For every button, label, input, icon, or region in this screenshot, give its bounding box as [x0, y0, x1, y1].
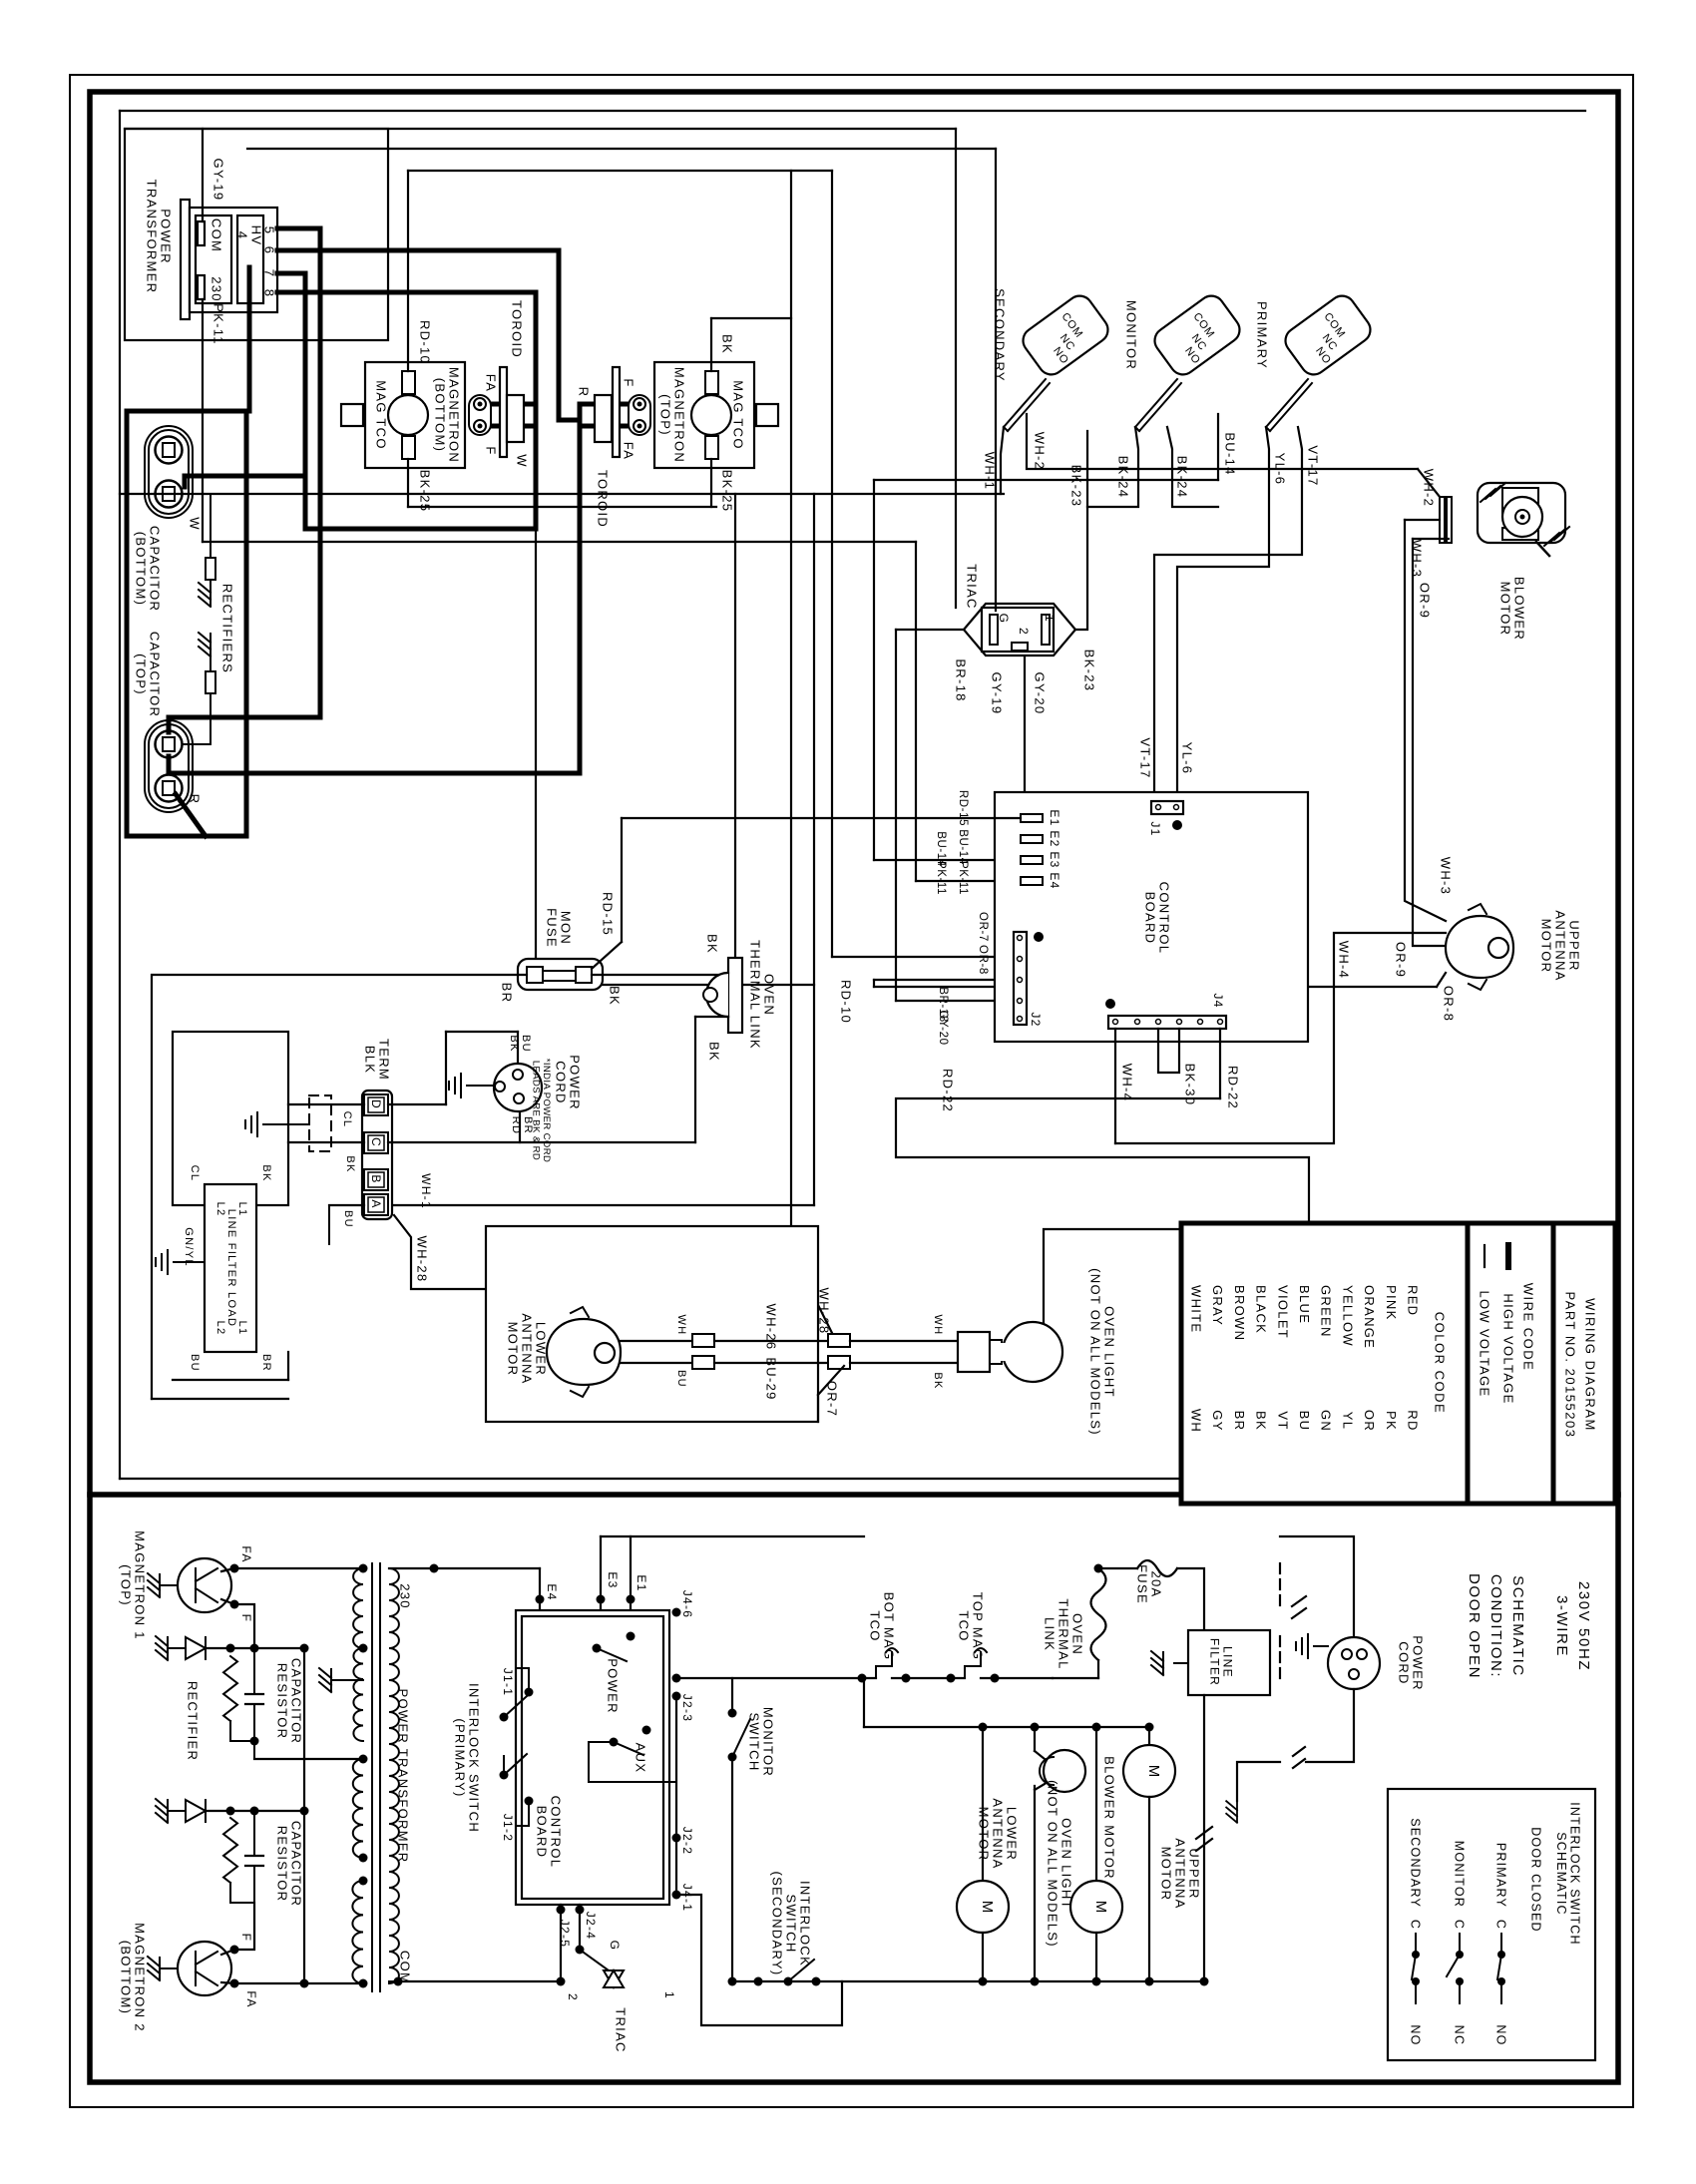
svg-text:LEADS ARE BK & RD: LEADS ARE BK & RD: [530, 1061, 541, 1160]
svg-text:(PRIMARY): (PRIMARY): [452, 1718, 467, 1797]
svg-text:M: M: [1092, 1901, 1109, 1914]
svg-text:PK-11: PK-11: [935, 861, 947, 895]
svg-text:C: C: [1453, 1920, 1467, 1930]
svg-text:DOOR OPEN: DOOR OPEN: [1466, 1573, 1483, 1679]
svg-text:RESISTOR: RESISTOR: [274, 1826, 289, 1903]
svg-text:YL-6: YL-6: [1179, 742, 1194, 775]
svg-text:E3: E3: [606, 1571, 620, 1588]
svg-text:A: A: [369, 1199, 383, 1208]
svg-text:RD-15: RD-15: [600, 892, 615, 936]
svg-text:PK-11: PK-11: [211, 303, 225, 345]
svg-text:B: B: [369, 1174, 383, 1183]
svg-text:TOP MAG: TOP MAG: [970, 1592, 985, 1661]
svg-text:BLK: BLK: [362, 1046, 377, 1074]
svg-text:FA: FA: [621, 442, 636, 461]
svg-text:PART NO. 20155203: PART NO. 20155203: [1562, 1292, 1577, 1439]
svg-text:FUSE: FUSE: [1134, 1564, 1149, 1604]
svg-text:WH-28: WH-28: [414, 1236, 429, 1283]
svg-text:CAPACITOR: CAPACITOR: [288, 1658, 303, 1744]
svg-text:SECONDARY: SECONDARY: [992, 288, 1007, 382]
svg-text:OVEN LIGHT: OVEN LIGHT: [1101, 1306, 1116, 1398]
svg-text:MAGNETRON 1: MAGNETRON 1: [132, 1530, 147, 1640]
svg-text:OR-9: OR-9: [1393, 942, 1408, 978]
svg-text:LOW VOLTAGE: LOW VOLTAGE: [1477, 1290, 1491, 1397]
svg-text:W: W: [187, 517, 202, 531]
svg-text:BU: BU: [342, 1210, 354, 1228]
svg-text:MONITOR: MONITOR: [760, 1707, 775, 1777]
svg-text:WH-4: WH-4: [1336, 941, 1351, 979]
svg-text:CORD: CORD: [553, 1061, 568, 1103]
svg-text:E1: E1: [635, 1574, 648, 1591]
svg-text:OVEN: OVEN: [1069, 1613, 1084, 1655]
svg-text:MON: MON: [558, 911, 573, 945]
svg-text:D: D: [369, 1099, 383, 1109]
svg-text:UPPER: UPPER: [1186, 1848, 1201, 1899]
svg-text:WH-3: WH-3: [1438, 857, 1453, 895]
svg-text:POWER: POWER: [567, 1055, 582, 1110]
svg-text:(TOP): (TOP): [118, 1564, 133, 1606]
svg-text:E1: E1: [1048, 809, 1061, 826]
svg-text:POWER: POWER: [158, 209, 173, 264]
svg-text:BU-14: BU-14: [1222, 432, 1237, 475]
svg-text:INTERLOCK: INTERLOCK: [797, 1881, 812, 1966]
svg-text:YELLOW: YELLOW: [1340, 1285, 1355, 1347]
svg-text:J1-2: J1-2: [501, 1814, 515, 1843]
svg-text:WH-26: WH-26: [763, 1304, 778, 1351]
svg-text:RD-10: RD-10: [838, 980, 853, 1024]
svg-text:BLOWER MOTOR: BLOWER MOTOR: [1101, 1756, 1116, 1880]
svg-text:TRANSFORMER: TRANSFORMER: [144, 180, 159, 294]
svg-text:CONDITION:: CONDITION:: [1487, 1574, 1504, 1678]
svg-text:J2-4: J2-4: [584, 1912, 598, 1941]
svg-text:J2-3: J2-3: [680, 1694, 694, 1723]
svg-text:BK-23: BK-23: [1081, 650, 1096, 692]
svg-text:PRIMARY: PRIMARY: [1494, 1843, 1508, 1908]
svg-text:UPPER: UPPER: [1566, 920, 1581, 971]
svg-text:(TOP): (TOP): [133, 654, 148, 695]
svg-text:4: 4: [234, 231, 249, 240]
svg-text:HIGH VOLTAGE: HIGH VOLTAGE: [1500, 1293, 1515, 1404]
svg-text:BOARD: BOARD: [1142, 892, 1157, 945]
svg-text:L2: L2: [214, 1321, 226, 1336]
svg-text:LINK: LINK: [1042, 1617, 1057, 1651]
svg-text:(TOP): (TOP): [657, 394, 672, 436]
svg-text:6: 6: [261, 246, 276, 255]
svg-text:(SECONDARY): (SECONDARY): [769, 1871, 784, 1975]
svg-text:OR-7: OR-7: [824, 1381, 839, 1417]
svg-text:DOOR CLOSED: DOOR CLOSED: [1529, 1827, 1543, 1933]
svg-text:ANTENNA: ANTENNA: [990, 1798, 1005, 1869]
svg-text:CAPACITOR: CAPACITOR: [147, 526, 162, 612]
svg-text:GY-20: GY-20: [937, 1010, 949, 1045]
svg-text:CL: CL: [189, 1165, 201, 1182]
svg-text:WH: WH: [932, 1315, 944, 1336]
svg-text:THERMAL: THERMAL: [1056, 1598, 1070, 1669]
svg-text:WH-2: WH-2: [1421, 469, 1436, 507]
svg-text:230: 230: [397, 1583, 412, 1609]
svg-text:BK-24: BK-24: [1115, 456, 1130, 499]
svg-text:M: M: [1145, 1765, 1162, 1778]
svg-text:BK: BK: [607, 986, 622, 1006]
svg-text:BOARD: BOARD: [534, 1806, 549, 1859]
svg-text:YL: YL: [1340, 1412, 1355, 1431]
svg-text:G: G: [608, 1941, 622, 1952]
svg-text:BLUE: BLUE: [1297, 1285, 1312, 1324]
svg-text:L2: L2: [214, 1202, 226, 1217]
svg-text:POWER: POWER: [1410, 1635, 1425, 1691]
svg-text:TERM: TERM: [376, 1039, 391, 1081]
svg-text:PK-11: PK-11: [957, 861, 969, 895]
svg-text:LINE: LINE: [1220, 1646, 1234, 1678]
svg-text:VT-17: VT-17: [1137, 737, 1152, 778]
svg-text:RED: RED: [1405, 1285, 1420, 1316]
svg-text:J1-1: J1-1: [501, 1668, 515, 1697]
svg-text:GY-19: GY-19: [989, 672, 1004, 715]
svg-text:COM: COM: [209, 218, 223, 252]
svg-text:FUSE: FUSE: [544, 908, 559, 948]
svg-text:FA: FA: [483, 374, 498, 393]
svg-text:MOTOR: MOTOR: [1158, 1847, 1173, 1902]
svg-text:NC: NC: [1453, 2025, 1467, 2046]
svg-text:LINE FILTER LOAD: LINE FILTER LOAD: [225, 1209, 237, 1327]
svg-text:NO: NO: [1409, 2024, 1423, 2045]
svg-text:PRIMARY: PRIMARY: [1254, 301, 1269, 369]
svg-text:(BOTTOM): (BOTTOM): [432, 378, 447, 452]
svg-text:ANTENNA: ANTENNA: [1552, 910, 1567, 981]
svg-text:J4-6: J4-6: [680, 1590, 694, 1619]
svg-text:MONITOR: MONITOR: [1453, 1841, 1467, 1908]
svg-text:SCHEMATIC: SCHEMATIC: [1554, 1832, 1568, 1916]
svg-text:WIRING DIAGRAM: WIRING DIAGRAM: [1582, 1298, 1597, 1432]
svg-text:VT: VT: [1275, 1411, 1290, 1430]
svg-text:WH-4: WH-4: [1119, 1064, 1134, 1101]
svg-text:OR-7: OR-7: [977, 912, 989, 942]
svg-text:WH-2: WH-2: [1032, 432, 1047, 470]
svg-text:C: C: [369, 1137, 383, 1147]
svg-text:BK-24: BK-24: [1174, 456, 1189, 499]
svg-text:(NOT ON ALL MODELS): (NOT ON ALL MODELS): [1087, 1268, 1102, 1436]
svg-text:WH-28: WH-28: [816, 1288, 831, 1335]
svg-text:TRIAC: TRIAC: [964, 564, 979, 610]
svg-text:2: 2: [1017, 628, 1031, 636]
svg-text:TCO: TCO: [956, 1610, 971, 1641]
svg-text:INTERLOCK SWITCH: INTERLOCK SWITCH: [466, 1683, 481, 1833]
svg-text:VIOLET: VIOLET: [1275, 1285, 1290, 1339]
svg-text:CAPACITOR: CAPACITOR: [147, 632, 162, 717]
svg-text:CAPACITOR: CAPACITOR: [288, 1821, 303, 1907]
svg-text:OVEN: OVEN: [761, 974, 776, 1016]
svg-text:J1: J1: [1148, 821, 1162, 836]
svg-text:W: W: [514, 454, 529, 468]
svg-text:ORANGE: ORANGE: [1362, 1285, 1377, 1349]
svg-text:TOROID: TOROID: [509, 300, 524, 358]
svg-text:PINK: PINK: [1384, 1285, 1399, 1321]
svg-text:FA: FA: [239, 1545, 253, 1562]
svg-text:TCO: TCO: [867, 1610, 882, 1641]
svg-text:230V 50HZ: 230V 50HZ: [1575, 1581, 1592, 1671]
svg-text:ANTENNA: ANTENNA: [519, 1313, 534, 1384]
svg-text:E4: E4: [545, 1583, 559, 1600]
svg-text:J4: J4: [1211, 993, 1225, 1008]
svg-text:SCHEMATIC: SCHEMATIC: [1509, 1575, 1526, 1677]
svg-text:GY-20: GY-20: [1032, 672, 1047, 715]
svg-text:WH-3: WH-3: [1409, 540, 1424, 578]
svg-text:*INDIA POWER CORD: *INDIA POWER CORD: [541, 1059, 552, 1162]
svg-text:BR-18: BR-18: [953, 658, 968, 701]
svg-text:ANTENNA: ANTENNA: [1172, 1838, 1187, 1909]
svg-text:WH-1: WH-1: [419, 1173, 433, 1209]
svg-text:MOTOR: MOTOR: [505, 1322, 520, 1377]
svg-text:BU: BU: [520, 1035, 532, 1053]
svg-text:(NOT ON ALL MODELS): (NOT ON ALL MODELS): [1045, 1780, 1060, 1948]
svg-text:1: 1: [1043, 615, 1057, 623]
svg-text:MOTOR: MOTOR: [976, 1807, 991, 1862]
svg-text:CL: CL: [341, 1111, 353, 1128]
svg-text:POWER: POWER: [605, 1658, 620, 1714]
svg-text:BROWN: BROWN: [1232, 1285, 1247, 1341]
svg-text:OR-8: OR-8: [1441, 986, 1456, 1022]
svg-text:RD-22: RD-22: [940, 1069, 955, 1112]
svg-text:BU: BU: [1297, 1411, 1312, 1432]
svg-text:RD-10: RD-10: [417, 320, 432, 364]
svg-text:HV: HV: [248, 225, 263, 246]
svg-text:MAG TCO: MAG TCO: [373, 380, 388, 450]
svg-text:F: F: [483, 446, 498, 455]
svg-text:COLOR CODE: COLOR CODE: [1432, 1312, 1447, 1414]
svg-text:RECTIFIERS: RECTIFIERS: [219, 584, 234, 673]
svg-text:3-WIRE: 3-WIRE: [1553, 1595, 1570, 1657]
svg-text:MOTOR: MOTOR: [1497, 582, 1512, 637]
svg-text:GN: GN: [1319, 1410, 1334, 1432]
svg-text:2: 2: [566, 1993, 580, 2001]
svg-text:MAGNETRON: MAGNETRON: [671, 367, 686, 463]
svg-text:WIRE CODE: WIRE CODE: [1520, 1283, 1535, 1372]
svg-text:F: F: [621, 378, 636, 387]
svg-text:GN/YL: GN/YL: [183, 1227, 195, 1267]
svg-text:RD-22: RD-22: [1225, 1066, 1240, 1109]
svg-text:RD: RD: [510, 1116, 522, 1135]
svg-text:MONITOR: MONITOR: [1123, 300, 1138, 370]
svg-text:BK-23: BK-23: [1068, 465, 1083, 508]
svg-text:TRIAC: TRIAC: [613, 2007, 628, 2053]
svg-text:RESISTOR: RESISTOR: [274, 1663, 289, 1740]
svg-text:BK: BK: [508, 1035, 520, 1052]
svg-text:(BOTTOM): (BOTTOM): [118, 1941, 133, 2014]
svg-text:5: 5: [261, 226, 276, 235]
svg-text:BR: BR: [499, 983, 514, 1004]
svg-text:RECTIFIER: RECTIFIER: [185, 1681, 200, 1761]
svg-text:RD-15: RD-15: [957, 790, 969, 826]
svg-text:NO: NO: [1494, 2024, 1508, 2045]
svg-text:FILTER: FILTER: [1207, 1638, 1221, 1686]
svg-text:C: C: [1494, 1920, 1508, 1930]
svg-text:TOROID: TOROID: [595, 470, 610, 528]
svg-text:BK: BK: [1254, 1411, 1269, 1431]
svg-text:1: 1: [662, 1991, 676, 1999]
svg-text:GRAY: GRAY: [1210, 1285, 1225, 1326]
svg-text:BK: BK: [344, 1155, 356, 1172]
svg-text:GREEN: GREEN: [1319, 1285, 1334, 1338]
svg-text:8: 8: [261, 289, 276, 298]
svg-text:BU-29: BU-29: [763, 1357, 778, 1400]
svg-text:BU-14: BU-14: [957, 829, 969, 865]
svg-text:BLOWER: BLOWER: [1511, 577, 1526, 641]
svg-text:CORD: CORD: [1396, 1641, 1411, 1684]
svg-text:R: R: [576, 387, 591, 398]
svg-text:SWITCH: SWITCH: [783, 1894, 798, 1953]
svg-text:BU: BU: [675, 1370, 687, 1388]
svg-text:MAG TCO: MAG TCO: [730, 380, 745, 450]
svg-text:G: G: [997, 614, 1011, 625]
svg-text:INTERLOCK SWITCH: INTERLOCK SWITCH: [1567, 1802, 1581, 1946]
svg-text:F: F: [239, 1614, 253, 1623]
svg-text:VT-17: VT-17: [1305, 445, 1320, 486]
svg-text:LOWER: LOWER: [1004, 1807, 1019, 1861]
svg-text:BK: BK: [260, 1164, 272, 1181]
svg-text:RD: RD: [1405, 1410, 1420, 1431]
svg-text:E2: E2: [1048, 830, 1061, 847]
svg-text:BK: BK: [719, 334, 734, 354]
svg-text:J4-1: J4-1: [680, 1884, 694, 1913]
svg-text:F: F: [239, 1934, 253, 1943]
svg-text:GY: GY: [1210, 1410, 1225, 1431]
svg-text:R: R: [187, 794, 202, 805]
svg-text:E3: E3: [1048, 851, 1061, 868]
svg-text:(BOTTOM): (BOTTOM): [133, 532, 148, 606]
svg-text:BK-25: BK-25: [719, 470, 734, 513]
svg-text:OR-9: OR-9: [1417, 583, 1432, 619]
svg-text:FA: FA: [244, 1990, 258, 2007]
svg-text:YL-6: YL-6: [1272, 453, 1287, 486]
svg-text:THERMAL LINK: THERMAL LINK: [747, 940, 762, 1050]
svg-text:AUX: AUX: [633, 1743, 647, 1774]
svg-text:230: 230: [209, 276, 223, 302]
svg-text:E4: E4: [1048, 872, 1061, 889]
svg-text:BK: BK: [706, 1042, 721, 1062]
svg-text:BK: BK: [932, 1372, 944, 1389]
svg-text:J2: J2: [1029, 1012, 1043, 1027]
svg-text:C: C: [1409, 1920, 1423, 1930]
svg-text:MOTOR: MOTOR: [1538, 919, 1553, 974]
svg-text:WH: WH: [1188, 1409, 1203, 1433]
svg-text:BR: BR: [1232, 1411, 1247, 1432]
svg-text:MAGNETRON 2: MAGNETRON 2: [132, 1923, 147, 2032]
svg-text:BR: BR: [260, 1354, 272, 1372]
svg-text:GY-19: GY-19: [211, 159, 225, 202]
svg-text:PK: PK: [1384, 1411, 1399, 1431]
svg-text:WH: WH: [675, 1315, 687, 1336]
svg-text:7: 7: [261, 269, 276, 278]
svg-text:WHITE: WHITE: [1188, 1285, 1203, 1333]
svg-text:CONTROL: CONTROL: [548, 1796, 563, 1869]
svg-text:BOT MAG: BOT MAG: [881, 1592, 896, 1661]
svg-text:MAGNETRON: MAGNETRON: [446, 367, 461, 463]
svg-text:J2-2: J2-2: [680, 1827, 694, 1856]
svg-text:OR: OR: [1362, 1410, 1377, 1432]
svg-text:OR-8: OR-8: [977, 945, 989, 975]
svg-text:SECONDARY: SECONDARY: [1409, 1818, 1423, 1908]
svg-text:M: M: [979, 1901, 996, 1914]
svg-text:CONTROL: CONTROL: [1156, 882, 1171, 955]
svg-text:BU: BU: [189, 1354, 201, 1372]
svg-text:BK: BK: [704, 934, 719, 954]
svg-text:BLACK: BLACK: [1254, 1285, 1269, 1334]
